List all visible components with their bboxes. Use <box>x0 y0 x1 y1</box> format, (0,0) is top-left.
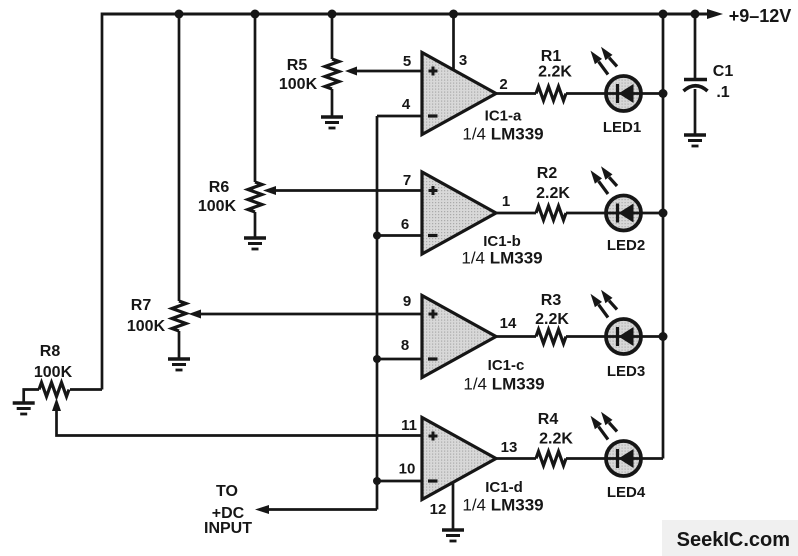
wire: pin 5 input <box>352 70 422 73</box>
wire: pin 12 ground lead <box>452 482 455 530</box>
ground at pin 12 <box>442 530 464 541</box>
wire: pin 8 input <box>377 358 422 361</box>
wire: R7 to ground <box>178 331 181 359</box>
LED3 emission arrows <box>591 290 618 318</box>
LED4 body <box>606 441 641 476</box>
junction dot rail R7 <box>175 10 184 19</box>
wire: R1 to LED bus <box>566 92 663 95</box>
wire: R8 wiper to pin 11 <box>57 408 423 436</box>
svg-text:100K: 100K <box>279 76 318 93</box>
DC input arrowhead <box>255 505 269 514</box>
svg-text:R7: R7 <box>131 297 152 314</box>
wire: left vertical rail to R8 <box>101 13 104 390</box>
svg-text:SeekIC.com: SeekIC.com <box>677 529 790 551</box>
ground under R7 <box>168 359 190 370</box>
capacitor C1 top plate <box>684 78 707 82</box>
svg-text:LED2: LED2 <box>607 237 645 254</box>
svg-text:100K: 100K <box>127 318 166 335</box>
svg-text:2.2K: 2.2K <box>539 431 573 448</box>
ground under C1 <box>684 135 706 146</box>
wire: +V top rail <box>102 13 710 16</box>
svg-text:IC1-b: IC1-b <box>483 233 521 250</box>
wire: R4 to LED bus <box>566 457 663 460</box>
svg-text:1/4 LM339: 1/4 LM339 <box>461 249 542 268</box>
wire: DC input stub <box>266 508 377 511</box>
svg-text:2: 2 <box>499 76 507 93</box>
LED2 emission arrows <box>591 166 618 194</box>
wire: IC1-a output <box>496 92 536 95</box>
svg-text:11: 11 <box>401 417 417 434</box>
junction dot rail R6 <box>251 10 260 19</box>
svg-text:IC1-a: IC1-a <box>485 108 522 125</box>
svg-text:C1: C1 <box>713 63 734 80</box>
svg-text:4: 4 <box>402 96 411 113</box>
LED2 body <box>606 196 641 231</box>
svg-text:1: 1 <box>502 193 510 210</box>
svg-text:LED4: LED4 <box>607 484 646 501</box>
wire: R5 branch from rail <box>331 14 334 59</box>
svg-text:100K: 100K <box>198 198 237 215</box>
wire: R8 left terminal to ground <box>24 390 39 404</box>
svg-text:6: 6 <box>401 216 409 233</box>
svg-text:LED3: LED3 <box>607 363 645 380</box>
svg-text:R6: R6 <box>209 179 230 196</box>
wire: inverting input bus <box>376 116 379 510</box>
resistor R4 <box>536 452 566 466</box>
junction dot pin 8 bus <box>373 355 381 363</box>
R5 wiper arrowhead <box>345 67 357 76</box>
junction dot rail LED bus <box>659 10 668 19</box>
op-amp IC1-c <box>422 296 496 378</box>
wire: pin 4 input <box>377 115 422 118</box>
wire: pin 10 input <box>377 480 422 483</box>
wire: R3 to LED bus <box>566 335 663 338</box>
svg-text:+9–12V: +9–12V <box>729 6 792 26</box>
op-amp IC1-a <box>422 53 496 135</box>
svg-text:14: 14 <box>500 315 517 332</box>
ground under R5 <box>321 117 343 128</box>
potentiometer R8 element <box>39 383 69 397</box>
LED3 body <box>606 319 641 354</box>
svg-text:13: 13 <box>501 439 518 456</box>
svg-text:2.2K: 2.2K <box>538 64 572 81</box>
R7 wiper arrowhead <box>189 310 202 319</box>
svg-text:INPUT: INPUT <box>204 520 252 537</box>
svg-text:TO: TO <box>216 483 238 500</box>
svg-text:1/4 LM339: 1/4 LM339 <box>462 125 543 144</box>
junction dot LED1 bus <box>659 89 668 98</box>
wire: IC1-d output <box>496 457 536 460</box>
op-amp IC1-b <box>422 172 496 254</box>
svg-text:IC1-c: IC1-c <box>488 357 525 374</box>
svg-text:8: 8 <box>401 337 409 354</box>
junction dot pin 6 bus <box>373 232 381 240</box>
wire: pin 6 input <box>377 234 422 237</box>
svg-text:9: 9 <box>403 293 411 310</box>
LED1 diode symbol <box>618 84 634 103</box>
svg-text:10: 10 <box>399 461 416 478</box>
wire: C1 to ground <box>694 89 697 135</box>
resistor R1 <box>536 87 566 101</box>
potentiometer R7 element <box>172 301 186 331</box>
wire: pin 3 supply <box>452 14 455 70</box>
svg-text:R8: R8 <box>40 343 61 360</box>
potentiometer R5 element <box>325 59 339 89</box>
LED4 diode symbol <box>618 449 634 468</box>
svg-text:1/4 LM339: 1/4 LM339 <box>463 375 544 394</box>
R8 wiper arrowhead <box>52 398 61 411</box>
wire: R7 branch from rail <box>178 14 181 301</box>
svg-text:R2: R2 <box>537 165 558 182</box>
wire: pin 7 input <box>272 189 422 192</box>
svg-text:R5: R5 <box>287 57 308 74</box>
svg-text:3: 3 <box>459 52 467 69</box>
svg-text:7: 7 <box>403 172 411 189</box>
R6 wiper arrowhead <box>263 186 276 195</box>
junction dot rail C1 <box>691 10 700 19</box>
+V supply arrowhead <box>707 9 723 19</box>
wire: rail corner to R8 right terminal <box>70 388 102 391</box>
LED2 diode symbol <box>618 204 634 223</box>
svg-text:1/4 LM339: 1/4 LM339 <box>462 496 543 515</box>
wire: LED cathode bus <box>662 14 665 459</box>
svg-text:12: 12 <box>430 501 447 518</box>
svg-text:5: 5 <box>403 53 411 70</box>
LED1 body <box>606 76 641 111</box>
wire: R6 branch from rail <box>254 14 257 182</box>
ground under R6 <box>244 238 266 249</box>
svg-text:R1: R1 <box>541 48 562 65</box>
svg-text:R3: R3 <box>541 292 562 309</box>
svg-text:100K: 100K <box>34 364 73 381</box>
wire: pin 9 input <box>196 313 422 316</box>
junction dot rail pin3 <box>449 10 458 19</box>
wire: R2 to LED bus <box>566 212 663 215</box>
svg-text:2.2K: 2.2K <box>536 185 570 202</box>
potentiometer R6 element <box>248 182 262 212</box>
capacitor C1 curved plate <box>684 86 708 91</box>
wire: IC1-b output <box>496 212 536 215</box>
junction dot pin 10 bus <box>373 477 381 485</box>
LED4 emission arrows <box>591 412 618 440</box>
LED1 emission arrows <box>591 47 618 75</box>
svg-text:.1: .1 <box>716 84 729 101</box>
resistor R2 <box>536 206 566 220</box>
junction dot LED2 bus <box>659 209 668 218</box>
svg-text:R4: R4 <box>538 411 559 428</box>
junction dot rail R5 <box>328 10 337 19</box>
resistor R3 <box>536 330 566 344</box>
svg-text:IC1-d: IC1-d <box>485 479 523 496</box>
junction dot LED3 bus <box>659 332 668 341</box>
wire: R6 to ground <box>254 212 257 238</box>
wire: IC1-c output <box>496 335 536 338</box>
watermark background <box>662 520 798 556</box>
svg-text:2.2K: 2.2K <box>535 311 569 328</box>
svg-text:LED1: LED1 <box>603 119 641 136</box>
ground at R8 <box>13 403 35 414</box>
wire: R5 to ground <box>331 89 334 117</box>
wire: C1 branch from rail <box>694 14 697 78</box>
op-amp IC1-d <box>422 418 496 500</box>
LED3 diode symbol <box>618 327 634 346</box>
